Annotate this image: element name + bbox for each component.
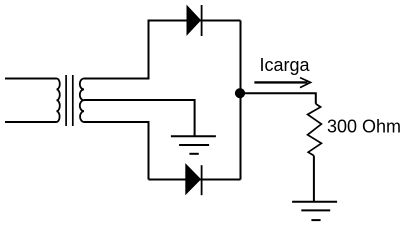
- wire resistor to ground: [313, 156, 315, 202]
- wire primary bottom lead: [5, 121, 57, 123]
- node junction dot: [235, 88, 245, 98]
- transformer T1 primary winding: [57, 79, 60, 122]
- svg-text:300 Ohm: 300 Ohm: [327, 116, 401, 136]
- wire bottom rail: [149, 179, 241, 181]
- transformer T1 secondary winding: [80, 79, 84, 122]
- wire secondary top terminal to top rail: [84, 21, 241, 79]
- svg-text:Icarga: Icarga: [260, 55, 311, 75]
- wire secondary bottom terminal to bottom rail: [84, 122, 149, 180]
- wire node to resistor: [241, 93, 316, 104]
- ground load: [292, 202, 337, 220]
- ground center tap: [171, 136, 216, 154]
- resistor R1 zigzag: [308, 104, 322, 156]
- diode D2 bottom: [186, 164, 202, 195]
- wire center tap to ground: [84, 100, 195, 136]
- current arrow Icarga: [254, 78, 310, 88]
- wire primary top lead: [5, 78, 57, 80]
- wire right rail: [240, 21, 242, 180]
- diode D1 top: [187, 5, 202, 36]
- transformer T1 core: [66, 75, 73, 126]
